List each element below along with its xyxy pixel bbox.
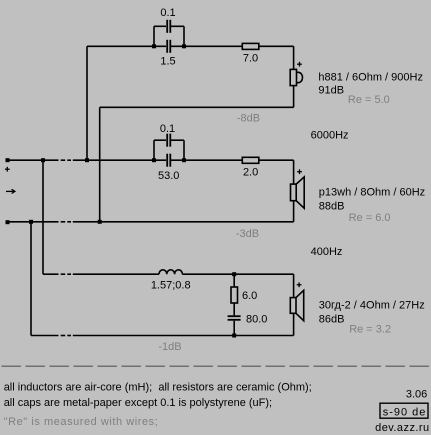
wire: tweeter return y=107 xyxy=(100,106,294,108)
speaker LS2 mid cone xyxy=(296,177,304,208)
svg-text:7.0: 7.0 xyxy=(243,53,258,65)
svg-text:all caps are metal-paper excep: all caps are metal-paper except 0.1 is p… xyxy=(4,397,272,409)
svg-text:dev.azz.ru: dev.azz.ru xyxy=(375,422,429,434)
capacitor C5 80.0 plates xyxy=(228,315,241,317)
wire: woofer feed riser x=43 xyxy=(42,160,44,274)
speaker LS2 mid body xyxy=(291,184,297,201)
svg-text:"Re" is measured with wires;: "Re" is measured with wires; xyxy=(4,416,159,428)
capacitor C4 53.0 plates xyxy=(166,154,168,167)
node: cap box left y160 xyxy=(152,158,156,162)
wire: - rail dash break xyxy=(61,221,65,223)
wire: woofer top y=274 xyxy=(43,273,59,275)
svg-text:53.0: 53.0 xyxy=(158,170,179,182)
separator dashed line xyxy=(2,365,431,367)
speaker LS3 woofer body xyxy=(290,298,296,314)
capacitor C1 0.1 plates xyxy=(166,20,168,33)
capacitor C2 1.5 plates xyxy=(166,40,168,53)
wire: mid speaker return drop xyxy=(293,201,295,222)
svg-text:400Hz: 400Hz xyxy=(311,246,343,258)
label box s-90 de xyxy=(380,403,428,418)
wire: + rail dash break xyxy=(61,159,65,161)
svg-text:30гд-2 / 4Ohm / 27Hz: 30гд-2 / 4Ohm / 27Hz xyxy=(319,299,425,311)
resistor R2 2.0 xyxy=(242,157,258,163)
svg-text:-8dB: -8dB xyxy=(237,113,260,125)
wire: after resistor 2.0 to corner xyxy=(259,159,294,161)
wire: woofer top dash break xyxy=(61,273,65,275)
wire: woofer return riser x=31 xyxy=(30,222,32,336)
svg-text:88dB: 88dB xyxy=(319,201,345,213)
svg-text:91dB: 91dB xyxy=(318,84,344,96)
wire: - rail y=222 from terminal to dash break xyxy=(10,221,59,223)
wire: + rail y=160 to mid cap xyxy=(73,159,166,161)
wire: tweeter top y=46 xyxy=(87,45,166,47)
node: rail junction x87 xyxy=(85,158,89,162)
capacitor C3 0.1 plates xyxy=(166,134,168,147)
node: minus rail junction x99.7 xyxy=(98,220,102,224)
node: cap box right y160 xyxy=(182,158,186,162)
capacitor C1 0.1 top branch box xyxy=(153,26,155,46)
capacitor C3 0.1 mid branch box xyxy=(153,140,155,160)
wire: riser x=87 tweeter feed xyxy=(293,160,295,184)
svg-text:h881 / 6Ohm / 900Hz: h881 / 6Ohm / 900Hz xyxy=(318,72,423,84)
svg-text:2.0: 2.0 xyxy=(243,167,258,179)
svg-text:80.0: 80.0 xyxy=(246,313,267,325)
terminal - (minus input pad) xyxy=(6,220,10,224)
node: cap box left y46 xyxy=(152,44,156,48)
speaker LS3 woofer cone xyxy=(296,290,304,320)
node: RC branch bottom xyxy=(232,334,236,338)
svg-text:-3dB: -3dB xyxy=(236,228,259,240)
resistor R3 6.0 vertical xyxy=(231,287,238,303)
wire: tweeter speaker drop xyxy=(293,46,295,69)
svg-text:0.1: 0.1 xyxy=(160,123,175,135)
svg-text:0.1: 0.1 xyxy=(160,7,175,19)
wire: woofer bottom y=335.5 xyxy=(31,335,59,337)
terminal + (plus input pad) xyxy=(6,158,10,162)
inductor L1 1.57;0.8 xyxy=(159,270,182,274)
wire: - rail y=222 to mid speaker return xyxy=(73,221,294,223)
speaker LS1 tweeter body xyxy=(290,69,296,85)
svg-text:Re = 5.0: Re = 5.0 xyxy=(348,94,390,106)
resistor R1 7.0 xyxy=(242,43,258,49)
wire: woofer speaker drop xyxy=(293,274,295,297)
node: RC branch top xyxy=(232,272,236,276)
plus sign at input terminal xyxy=(5,168,10,170)
svg-text:6.0: 6.0 xyxy=(242,290,257,302)
svg-text:6000Hz: 6000Hz xyxy=(311,130,349,142)
svg-text:1.5: 1.5 xyxy=(160,56,175,68)
plus sign mid xyxy=(297,171,302,173)
svg-text:Re = 3.2: Re = 3.2 xyxy=(349,324,391,336)
arrow signal direction xyxy=(6,190,15,192)
svg-text:86dB: 86dB xyxy=(319,314,345,326)
svg-text:s-90 de: s-90 de xyxy=(383,407,427,419)
wire: RC branch drop xyxy=(233,274,235,287)
svg-text:all inductors are air-core (mH: all inductors are air-core (mH); all res… xyxy=(4,382,312,394)
plus sign woofer xyxy=(297,284,302,286)
speaker LS1 tweeter dome xyxy=(297,72,303,82)
svg-text:-1dB: -1dB xyxy=(158,341,181,353)
svg-text:1.57;0.8: 1.57;0.8 xyxy=(151,280,191,292)
wire: + rail after mid cap to resistor 2.0 xyxy=(171,159,242,161)
polarity and direction marks xyxy=(5,62,302,287)
node: rail junction x43 xyxy=(41,158,45,162)
wire: tweeter return riser x=99.7 xyxy=(99,107,101,222)
node: minus rail junction x31 xyxy=(29,220,33,224)
svg-text:Re = 6.0: Re = 6.0 xyxy=(349,212,391,224)
svg-text:3.06: 3.06 xyxy=(406,388,427,400)
svg-text:p13wh / 8Ohm / 60Hz: p13wh / 8Ohm / 60Hz xyxy=(319,187,425,199)
node: cap box right y46 xyxy=(182,44,186,48)
plus sign tweeter xyxy=(297,63,302,65)
wire: + rail y=160 from terminal to dash break xyxy=(10,159,59,161)
